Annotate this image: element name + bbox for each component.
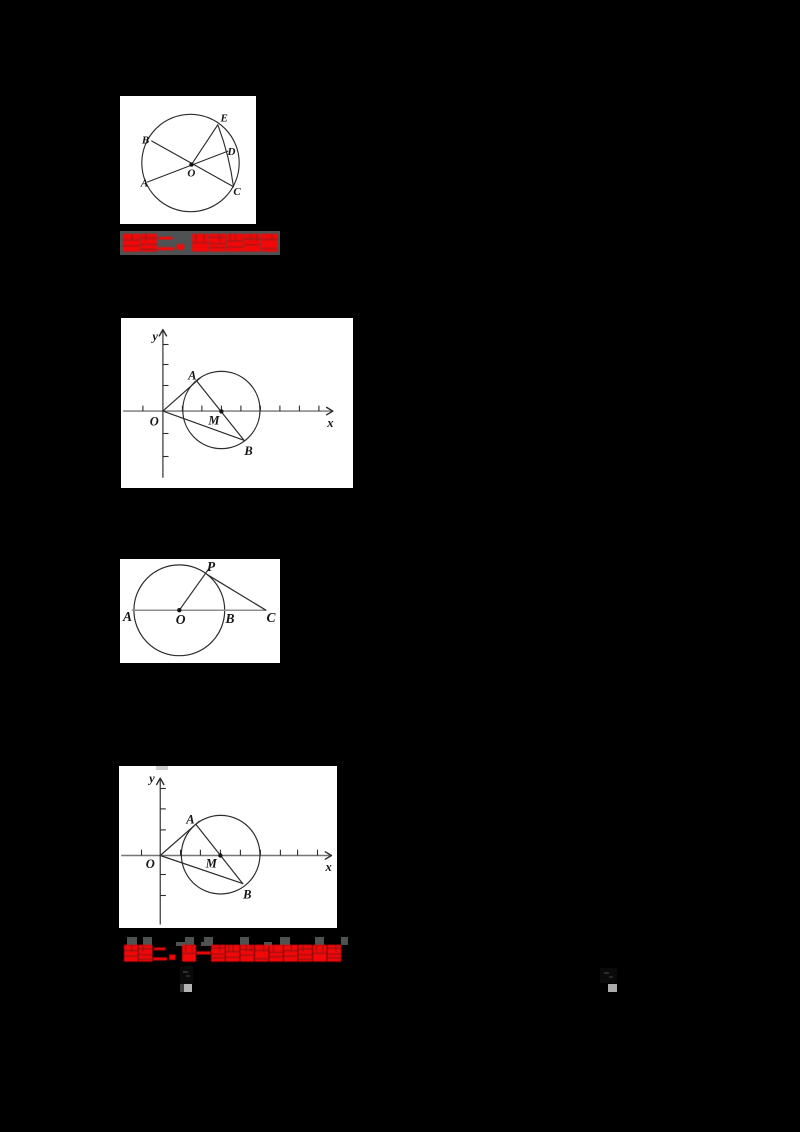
line A-O-B-C [132, 609, 266, 611]
diameter B-C [152, 141, 234, 187]
svg-text:B: B [141, 134, 149, 146]
x axis arrowhead [325, 851, 331, 858]
y axis arrowhead [156, 778, 163, 784]
svg-text:C: C [266, 610, 276, 625]
x axis ticks [141, 849, 317, 855]
circle O [142, 114, 239, 211]
segment O-A [160, 821, 199, 855]
inline formula icon 1 (dark) [0, 0, 800, 1]
figure 4: circle M on coordinate axes (second), panel [119, 766, 337, 929]
y axis ticks [162, 344, 168, 456]
x axis arrowhead [326, 407, 332, 414]
gray blemish on figure 4 top edge [156, 766, 168, 770]
svg-text:x: x [326, 415, 333, 429]
svg-text:y: y [150, 329, 158, 343]
heading 1 gray highlight bar [120, 231, 280, 255]
figure 3: circle O with tangent P-C, panel [120, 559, 280, 663]
y axis ticks [160, 788, 166, 895]
tangent P-C [207, 575, 266, 611]
diameter A-D [148, 151, 228, 182]
figure 1: circle O with chords, panel [120, 96, 256, 225]
center dot O [177, 608, 181, 612]
svg-text:A: A [122, 609, 132, 624]
svg-text:B: B [242, 887, 251, 901]
diameter A-B [196, 380, 244, 440]
circle M [182, 371, 259, 448]
svg-text:B: B [243, 443, 252, 457]
circle O [134, 565, 225, 656]
svg-text:P: P [207, 559, 216, 574]
svg-text:E: E [220, 112, 228, 124]
svg-text:C: C [233, 185, 241, 197]
x axis ticks [142, 405, 318, 411]
radius O-P [179, 569, 209, 610]
x axis [123, 410, 332, 412]
heading 1 red text (CJK approximation) [120, 231, 280, 255]
svg-text:O: O [149, 414, 158, 428]
circle M [181, 815, 260, 894]
svg-text:y: y [147, 771, 155, 785]
segment O-A [162, 377, 199, 410]
y axis [161, 329, 163, 477]
inline formula icon 2 (dark) [0, 0, 800, 1]
svg-text:B: B [224, 611, 234, 626]
svg-text:A: A [187, 368, 196, 382]
secant O-B [162, 411, 243, 440]
heading 2 red text (CJK approximation) [124, 944, 344, 963]
secant O-B [160, 855, 243, 883]
heading 2 gray highlight fragments [0, 0, 800, 1]
x axis [121, 854, 331, 856]
svg-text:O: O [145, 857, 154, 871]
svg-text:O: O [176, 612, 186, 627]
svg-text:A: A [140, 177, 148, 189]
center dot O [189, 162, 193, 166]
y axis arrowhead [159, 329, 166, 335]
svg-text:O: O [187, 167, 195, 179]
svg-text:D: D [227, 146, 236, 158]
figure 2: circle M on coordinate axes, panel [121, 318, 354, 488]
chord E-C [218, 124, 234, 186]
center dot M [219, 409, 223, 413]
svg-text:x: x [324, 860, 331, 874]
radius O-E [192, 124, 218, 164]
svg-text:M: M [207, 413, 220, 427]
svg-text:A: A [185, 812, 194, 826]
y axis [159, 778, 161, 924]
svg-text:M: M [204, 856, 217, 870]
diameter A-B [196, 824, 243, 883]
center dot M [218, 853, 222, 857]
